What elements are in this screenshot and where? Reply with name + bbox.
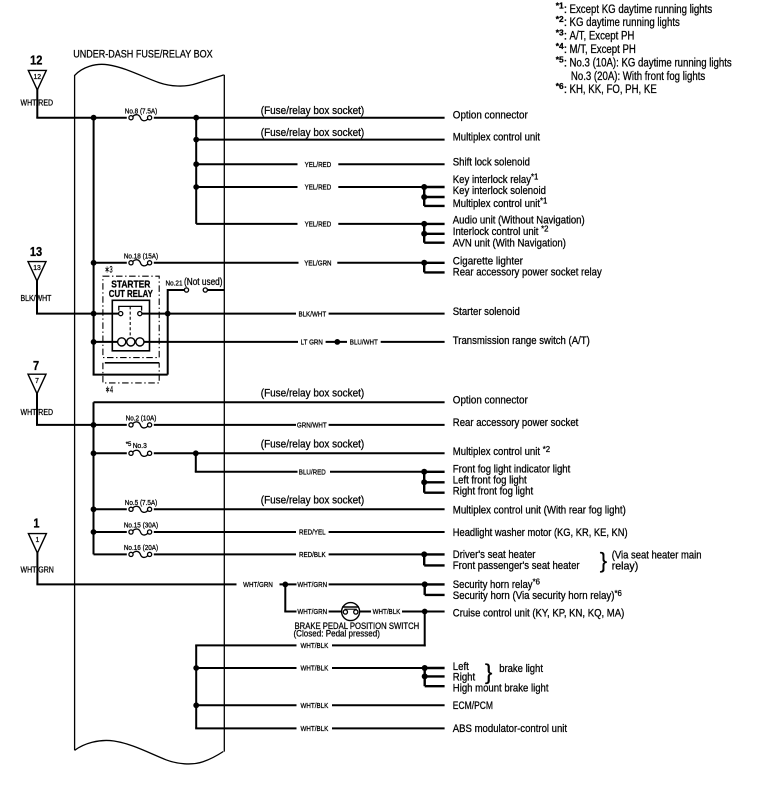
wire left [94, 553, 127, 555]
wire WHT/BLK row2 [196, 667, 296, 669]
wire mid [280, 583, 297, 585]
junction bus D row2 [193, 665, 199, 671]
svg-text:BLU/WHT: BLU/WHT [350, 338, 378, 347]
svg-text:No.15 (30A): No.15 (30A) [124, 521, 158, 530]
svg-text:*4: M/T, Except PH: *4: M/T, Except PH [556, 41, 636, 56]
junction bus B row1 [193, 115, 199, 121]
svg-text:RED/BLK: RED/BLK [299, 550, 326, 559]
connector 13 (BLK/WHT) [28, 244, 46, 281]
wire brake branch down [284, 584, 286, 611]
wire row4 key interlock YEL/RED [196, 186, 297, 188]
fuse No.18 (15A) [129, 260, 152, 266]
connector 7 (WHT/RED) [28, 358, 46, 394]
svg-text:AVN unit (With Navigation): AVN unit (With Navigation) [453, 238, 566, 250]
wire row2 multiplex [196, 139, 444, 141]
svg-text:(Fuse/relay box socket): (Fuse/relay box socket) [261, 388, 365, 400]
svg-text:UNDER-DASH FUSE/RELAY BOX: UNDER-DASH FUSE/RELAY BOX [73, 49, 213, 61]
wire row6 YEL/GRN [154, 262, 299, 264]
svg-text:*5: No.3 (10A): KG daytime run: *5: No.3 (10A): KG daytime running light… [556, 54, 732, 69]
relay contact arm [119, 306, 142, 310]
footnotes [556, 1, 732, 97]
svg-text:BLK/WHT: BLK/WHT [298, 309, 326, 318]
svg-text:WHT/BLK: WHT/BLK [301, 701, 329, 710]
svg-text:WHT/GRN: WHT/GRN [243, 580, 273, 589]
junction No.21 tap [165, 311, 171, 317]
svg-text:RED/YEL: RED/YEL [299, 528, 326, 537]
svg-text:Interlock control unit *2: Interlock control unit *2 [453, 225, 549, 238]
under-dash fuse/relay box right edge [223, 75, 225, 752]
junction bus B row3 [193, 161, 199, 167]
fuse No.16 (20A) [129, 551, 152, 557]
branch security horn [422, 581, 445, 595]
svg-text:}: } [600, 548, 607, 573]
brake pedal position switch [342, 603, 360, 621]
fuse No.5 (7.5A) [129, 506, 152, 512]
svg-text:Right front fog light: Right front fog light [453, 486, 534, 498]
junction bus B row2 [193, 137, 199, 143]
starter cut relay outer dash-dot box *3 [103, 276, 159, 357]
svg-text:Front passenger's seat heater: Front passenger's seat heater [453, 560, 580, 572]
svg-text:BLU/RED: BLU/RED [299, 468, 326, 477]
wire right to transmission range switch [381, 341, 445, 343]
svg-text:Multiplex control unit (With r: Multiplex control unit (With rear fog li… [453, 504, 626, 516]
connector 12 (WHT/RED) [28, 53, 46, 90]
svg-text:*1: Except KG daytime running: *1: Except KG daytime running lights [556, 1, 712, 16]
relay coil [118, 338, 144, 346]
svg-text:WHT/GRN: WHT/GRN [297, 580, 327, 589]
svg-text:Multiplex control unit *2: Multiplex control unit *2 [453, 445, 550, 458]
fuse No.15 (30A) [129, 529, 152, 535]
junction bus C No.15 row [91, 529, 97, 535]
junction bus C No.5 row [91, 506, 97, 512]
svg-text:WHT/GRN: WHT/GRN [297, 607, 327, 616]
svg-text:(Closed: Pedal pressed): (Closed: Pedal pressed) [294, 629, 380, 640]
bus C connector 7 rows [93, 402, 95, 554]
svg-text:relay): relay) [612, 561, 639, 573]
wire WHT/BLK row4 [195, 727, 296, 729]
svg-text:GRN/WHT: GRN/WHT [297, 421, 327, 430]
svg-text:(Fuse/relay box socket): (Fuse/relay box socket) [261, 439, 365, 451]
wire right [329, 583, 425, 585]
svg-text:12: 12 [30, 53, 42, 68]
wire *4 jumper [93, 374, 168, 376]
fuse No.2 (10A) [129, 422, 152, 428]
wire switch to label [360, 611, 372, 613]
svg-text:Transmission range switch (A/T: Transmission range switch (A/T) [453, 335, 590, 347]
wire row5 audio YEL/RED [196, 223, 297, 225]
wire BLU/RED [195, 471, 298, 473]
relay contact right [138, 312, 142, 316]
wire connector 13 feed [36, 280, 38, 314]
bus B socket rows [195, 118, 197, 224]
svg-text:High mount brake light: High mount brake light [453, 682, 549, 694]
wire right to cruise [402, 611, 445, 613]
svg-text:No.2 (10A): No.2 (10A) [126, 414, 157, 423]
svg-text:13: 13 [33, 263, 41, 272]
junction bus A rowH [91, 339, 97, 345]
svg-text:Multiplex control unit*1: Multiplex control unit*1 [453, 196, 548, 209]
svg-text:Security horn relay*6: Security horn relay*6 [453, 578, 540, 591]
fuse No.21 (not used) [168, 288, 225, 375]
svg-text:}: } [485, 660, 492, 685]
connector 1 (WHT/GRN) [28, 515, 46, 553]
junction fog branch [193, 450, 199, 456]
fuse No.3 [129, 450, 152, 456]
wire connector 1 feed [36, 552, 38, 584]
junction bus C No.3 row [91, 450, 97, 456]
junction bus A rowG [91, 311, 97, 317]
wire row option connector 2 [94, 401, 445, 403]
wire left [94, 531, 127, 533]
svg-text:Option connector: Option connector [453, 395, 528, 407]
svg-text:Shift lock solenoid: Shift lock solenoid [453, 157, 530, 169]
wire to switch [329, 611, 343, 613]
svg-text:YEL/RED: YEL/RED [305, 160, 332, 169]
branch seat heaters [421, 551, 444, 565]
svg-text:No.21: No.21 [166, 279, 183, 288]
fuse No.8 (7.5A) [129, 115, 152, 121]
wire fog branch down [195, 453, 197, 472]
svg-text:Rear accessory power socket re: Rear accessory power socket relay [453, 266, 602, 278]
junction bus A row1 [91, 115, 97, 121]
svg-text:*2: KG daytime running lights: *2: KG daytime running lights [556, 14, 680, 29]
wire right [154, 452, 445, 454]
svg-text:Option connector: Option connector [453, 110, 528, 122]
branch cigarette group [421, 260, 444, 273]
junction bus D row3 [193, 702, 199, 708]
svg-text:Multiplex control unit: Multiplex control unit [453, 132, 541, 144]
svg-text:WHT/BLK: WHT/BLK [301, 641, 329, 650]
relay actuator dashed link [129, 306, 131, 337]
svg-text:Rear accessory power socket: Rear accessory power socket [453, 417, 579, 429]
svg-text:1: 1 [36, 535, 40, 544]
wire WHT/BLK row3 [196, 704, 296, 706]
box bottom torn edge [75, 740, 224, 764]
svg-text:Cruise control unit (KY, KP, K: Cruise control unit (KY, KP, KN, KQ, MA) [453, 608, 625, 620]
junction bus C No.2 row [91, 422, 97, 428]
svg-text:1: 1 [33, 515, 39, 530]
svg-text:LT GRN: LT GRN [301, 338, 323, 347]
svg-text:13: 13 [30, 244, 42, 259]
branch audio group [421, 221, 444, 243]
wire coil to LT GRN [144, 341, 298, 343]
wire BLK/WHT right [329, 313, 445, 315]
svg-text:Key interlock relay*1: Key interlock relay*1 [453, 173, 539, 186]
svg-text:(Fuse/relay box socket): (Fuse/relay box socket) [261, 127, 365, 139]
bus A from connector 12 [93, 118, 95, 375]
wire connector 7 feed [36, 393, 38, 425]
svg-text:*3: A/T, Except PH: *3: A/T, Except PH [556, 28, 635, 43]
svg-text:YEL/RED: YEL/RED [305, 183, 332, 192]
junction brake branch [282, 582, 288, 588]
wire bus A to coil [94, 341, 118, 343]
svg-text:Key interlock solenoid: Key interlock solenoid [453, 185, 546, 197]
wire relay contact to No.21 tap [142, 313, 296, 315]
wire row1 to option connector [154, 117, 445, 119]
wire row3 shift lock YEL/RED [196, 163, 297, 165]
branch key interlock group [421, 184, 444, 206]
svg-text:Audio unit (Without Navigation: Audio unit (Without Navigation) [453, 214, 585, 226]
svg-text:No.16 (20A): No.16 (20A) [124, 543, 158, 552]
svg-text:7: 7 [33, 358, 39, 373]
svg-text:BLK/WHT: BLK/WHT [21, 294, 52, 303]
svg-text:(Fuse/relay box socket): (Fuse/relay box socket) [261, 495, 365, 507]
svg-text:*6: KH, KK, FO, PH, KE: *6: KH, KK, FO, PH, KE [556, 81, 657, 96]
wire right [154, 508, 445, 510]
wire WHT/BLK row1 [195, 644, 296, 646]
junction cruise drop [422, 609, 428, 615]
box top torn edge [75, 64, 224, 86]
wire cruise drop to brake light bus [424, 612, 426, 647]
svg-text:No.5 (7.5A): No.5 (7.5A) [125, 498, 158, 507]
svg-text:Headlight washer motor (KG, KR: Headlight washer motor (KG, KR, KE, KN) [453, 527, 628, 539]
dash-dot box *4 [103, 363, 159, 383]
svg-text:∗3: ∗3 [105, 265, 113, 276]
wire row6 left [94, 262, 127, 264]
svg-text:YEL/RED: YEL/RED [305, 220, 332, 229]
junction bus B row4 [193, 184, 199, 190]
svg-text:YEL/GRN: YEL/GRN [304, 259, 331, 268]
wire GRN/WHT [154, 424, 296, 426]
relay *4 jumper plate [105, 362, 159, 364]
svg-text:No.18 (15A): No.18 (15A) [124, 251, 158, 260]
junction bus A row6 [91, 260, 97, 266]
svg-text:(Not used): (Not used) [184, 277, 223, 288]
wire RED/BLK [154, 553, 296, 555]
svg-text:12: 12 [34, 72, 42, 81]
svg-text:Security horn (Via security ho: Security horn (Via security horn relay)*… [453, 589, 622, 602]
wire RED/YEL [154, 531, 296, 533]
wire connector 12 feed [36, 89, 38, 118]
branch brake lights [422, 665, 445, 686]
svg-text:ECM/PCM: ECM/PCM [453, 700, 493, 712]
splice dot [334, 339, 340, 345]
svg-text:brake light: brake light [499, 663, 543, 675]
branch fog lights [421, 469, 444, 493]
svg-text:No.8 (7.5A): No.8 (7.5A) [125, 106, 158, 115]
svg-text:∗4: ∗4 [105, 385, 113, 396]
wire splice segment [326, 341, 347, 343]
svg-text:WHT/BLK: WHT/BLK [301, 724, 329, 733]
svg-text:CUT RELAY: CUT RELAY [109, 289, 153, 300]
relay contact left [119, 312, 123, 316]
svg-text:7: 7 [35, 376, 39, 385]
svg-text:ABS modulator-control unit: ABS modulator-control unit [453, 723, 568, 735]
starter cut relay body [112, 300, 149, 351]
wire left [94, 452, 127, 454]
svg-text:No.3 (20A): With front fog lig: No.3 (20A): With front fog lights [571, 69, 705, 83]
wire left [94, 508, 127, 510]
svg-text:(Fuse/relay box socket): (Fuse/relay box socket) [261, 105, 365, 117]
bus D WHT/BLK [195, 645, 197, 728]
svg-text:Starter solenoid: Starter solenoid [453, 306, 520, 318]
svg-text:WHT/BLK: WHT/BLK [373, 607, 401, 616]
svg-text:WHT/BLK: WHT/BLK [301, 664, 329, 673]
under-dash fuse/relay box left edge [74, 75, 76, 750]
